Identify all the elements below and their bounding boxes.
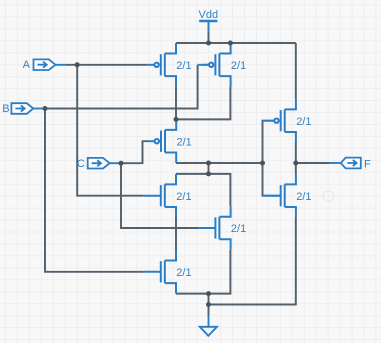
input pin A	[23, 59, 66, 71]
junction node2 upper	[206, 161, 211, 166]
transistor M4 PMOS 2/1 (inverter pull-up)	[263, 99, 312, 143]
wire node1: M1/M2 sources to M3 drain	[176, 87, 230, 120]
wire A pin to M1 gate	[66, 64, 148, 66]
transistor M2 PMOS 2/1 (gate B)	[198, 43, 247, 87]
ground symbol	[200, 316, 217, 336]
svg-text:C: C	[77, 158, 85, 170]
wire Vdd rail to M4 drain	[295, 43, 297, 99]
transistor M8 NMOS 2/1 (inverter pull-down)	[263, 174, 312, 218]
power Vdd symbol	[199, 9, 219, 33]
wire C to M3 gate	[120, 141, 149, 163]
junction node2 at inverter input	[260, 161, 265, 166]
svg-text:2/1: 2/1	[176, 191, 191, 203]
junction ground row lower	[206, 302, 211, 307]
wire M4 source to output node	[295, 143, 297, 174]
output pin F	[329, 158, 371, 171]
transistor M6 NMOS 2/1 (gate C)	[198, 206, 246, 250]
wire Vdd stem	[208, 33, 210, 44]
junction on Vdd stem	[206, 41, 211, 46]
wire node2 lower row: M5/M6 drains	[176, 163, 230, 206]
junction node1	[174, 117, 179, 122]
wire ground row lower: to M8 source	[209, 218, 296, 305]
svg-text:2/1: 2/1	[231, 60, 246, 72]
svg-text:2/1: 2/1	[177, 136, 192, 148]
svg-text:2/1: 2/1	[296, 116, 311, 128]
transistor M3 PMOS 2/1 (gate C)	[148, 119, 192, 163]
svg-text:2/1: 2/1	[231, 223, 246, 235]
wire inverter input: node2 to M4/M8 gates	[263, 121, 268, 196]
junction M2 drain on rail	[228, 41, 233, 46]
junction node C	[119, 161, 124, 166]
wire M5 source to M7 drain	[175, 218, 177, 251]
svg-text:2/1: 2/1	[176, 267, 191, 279]
wire node2 upper row: M3 source to inverter input	[176, 162, 263, 164]
wire A to M5 gate	[77, 65, 144, 196]
junction node A	[75, 62, 80, 67]
wire ground stem	[208, 305, 210, 316]
ghost circle artifact	[323, 191, 334, 202]
svg-text:A: A	[23, 59, 31, 71]
wire C to M6 gate	[121, 163, 198, 228]
junction output node F	[293, 161, 298, 166]
transistor M5 NMOS 2/1 (gate A)	[144, 174, 192, 218]
wire output node to pin F	[296, 162, 329, 164]
svg-text:2/1: 2/1	[176, 60, 191, 72]
input pin B	[2, 103, 43, 115]
transistor M7 NMOS 2/1 (gate B)	[144, 250, 192, 294]
svg-text:2/1: 2/1	[296, 191, 311, 203]
power rail wire (Vdd net)	[176, 42, 296, 44]
input pin C	[77, 158, 120, 170]
svg-text:Vdd: Vdd	[199, 9, 219, 21]
junction node2 lower	[206, 171, 211, 176]
transistor M1 PMOS 2/1 (gate A)	[148, 43, 192, 87]
wire B to M2 gate	[44, 65, 198, 109]
wire B to M7 gate	[45, 109, 144, 272]
svg-text:B: B	[2, 103, 9, 115]
svg-text:F: F	[364, 158, 371, 170]
junction node B	[43, 106, 48, 111]
wire ground row upper: M7/M6 sources	[176, 250, 230, 294]
junction ground row upper	[206, 291, 211, 296]
